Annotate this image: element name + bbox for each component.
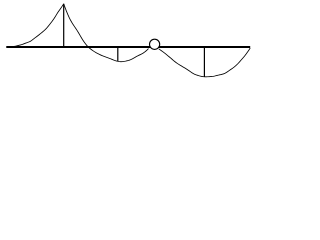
left moment parabola rising to apex xyxy=(6,4,63,47)
beam axis line xyxy=(6,46,250,48)
peak ordinate vertical xyxy=(63,4,65,48)
curve from apex through left sag to hinge xyxy=(64,4,149,62)
left sag ordinate tick xyxy=(117,47,119,61)
hinge circle xyxy=(150,39,160,49)
right sag curve from hinge to right end xyxy=(159,48,250,77)
right sag ordinate tick xyxy=(203,47,205,77)
